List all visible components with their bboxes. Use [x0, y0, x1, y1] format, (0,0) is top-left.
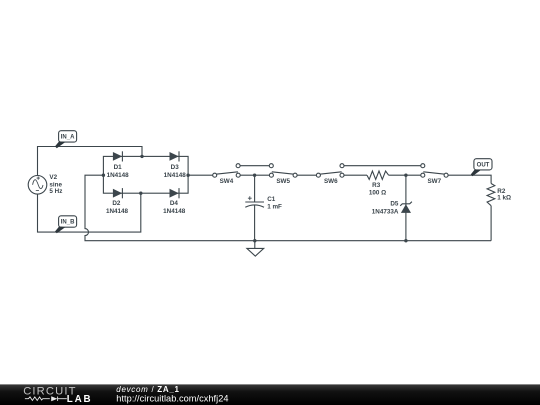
wire: R3 to SW7 (with D5 tap) [389, 174, 421, 176]
junction: D5 top node [404, 174, 407, 177]
zener diode D5 [400, 202, 412, 213]
switch SW4 [213, 164, 241, 185]
wire: bypass between SW4 and SW5 upper throws [240, 165, 269, 167]
footer bar [0, 384, 540, 405]
svg-text:OUT: OUT [477, 162, 490, 168]
wire: C1 top tap from main line [254, 175, 256, 202]
svg-text:C1: C1 [267, 196, 276, 203]
svg-text:1N4148: 1N4148 [164, 172, 187, 179]
junction: D5 bottom node [404, 239, 407, 242]
svg-text:D3: D3 [171, 164, 180, 171]
junction: top rail node [140, 155, 143, 158]
junction: bottom rail node [139, 192, 142, 195]
svg-text:D4: D4 [170, 200, 179, 207]
wire: V2+ up and right to bridge top rail (net IN_A) [38, 147, 143, 176]
svg-text:IN_B: IN_B [61, 220, 75, 226]
svg-text:1N4148: 1N4148 [163, 208, 186, 215]
svg-text:SW7: SW7 [427, 178, 441, 185]
wire: bridge rectangle rails [103, 156, 188, 193]
wire: SW4 to SW5 (main line with C1 tap) [240, 174, 269, 176]
diode D2 [113, 188, 123, 198]
svg-text:5 Hz: 5 Hz [49, 188, 62, 195]
wire: SW7 to OUT corner and down to R2 [448, 175, 491, 183]
switch SW5 [269, 164, 297, 185]
resistor R3 [367, 171, 389, 179]
svg-text:SW6: SW6 [324, 178, 338, 185]
node IN_A flag [55, 131, 77, 149]
node OUT flag [471, 159, 492, 177]
junction: ground node [253, 239, 256, 242]
wire: SW5 to SW6 [297, 174, 316, 176]
wire: bridge right rail to SW4 [188, 174, 213, 176]
label V2 value [49, 174, 62, 195]
diode D4 [170, 188, 180, 198]
wire: SW6 to R3 [344, 174, 367, 176]
junction: right rail node [186, 174, 189, 177]
node IN_B flag [55, 216, 77, 234]
svg-text:V2: V2 [49, 174, 57, 181]
wire: R2 bottom to bottom rail [490, 206, 492, 241]
svg-text:http://circuitlab.com/cxhfj24: http://circuitlab.com/cxhfj24 [116, 394, 228, 404]
switch SW6 [316, 164, 344, 185]
switch SW7 [421, 164, 448, 185]
wire: bypass between SW6 and SW7 upper throws [344, 165, 421, 167]
svg-text:1 mF: 1 mF [267, 204, 282, 211]
diode D3 [170, 151, 180, 161]
wire: left rail tap to vertical drop (with hop) and bottom rail [85, 175, 491, 241]
svg-text:D2: D2 [112, 200, 121, 207]
junction: left rail node [102, 174, 105, 177]
footer title text [116, 385, 228, 403]
svg-text:R3: R3 [372, 182, 381, 189]
CircuitLab logo [23, 386, 92, 405]
svg-text:100 Ω: 100 Ω [369, 190, 386, 197]
svg-text:SW5: SW5 [276, 178, 290, 185]
svg-text:IN_A: IN_A [61, 135, 75, 141]
svg-text:1 kΩ: 1 kΩ [497, 194, 511, 201]
voltage source V2 [28, 176, 47, 195]
svg-text:1N4148: 1N4148 [107, 172, 130, 179]
wire: V2- down and right to bridge bottom rail (net IN_B) [38, 193, 141, 232]
svg-text:LAB: LAB [67, 394, 93, 405]
capacitor C1 [245, 196, 264, 240]
diode D1 [113, 151, 123, 161]
svg-text:1N4733A: 1N4733A [372, 209, 399, 216]
junction: C1 top node [253, 174, 256, 177]
svg-text:D5: D5 [390, 201, 399, 208]
svg-text:1N4148: 1N4148 [106, 208, 129, 215]
ground [247, 241, 264, 256]
resistor R2 [487, 184, 495, 206]
wire: D5 branch vertical [405, 175, 407, 241]
svg-text:SW4: SW4 [220, 178, 234, 185]
svg-text:D1: D1 [114, 164, 123, 171]
